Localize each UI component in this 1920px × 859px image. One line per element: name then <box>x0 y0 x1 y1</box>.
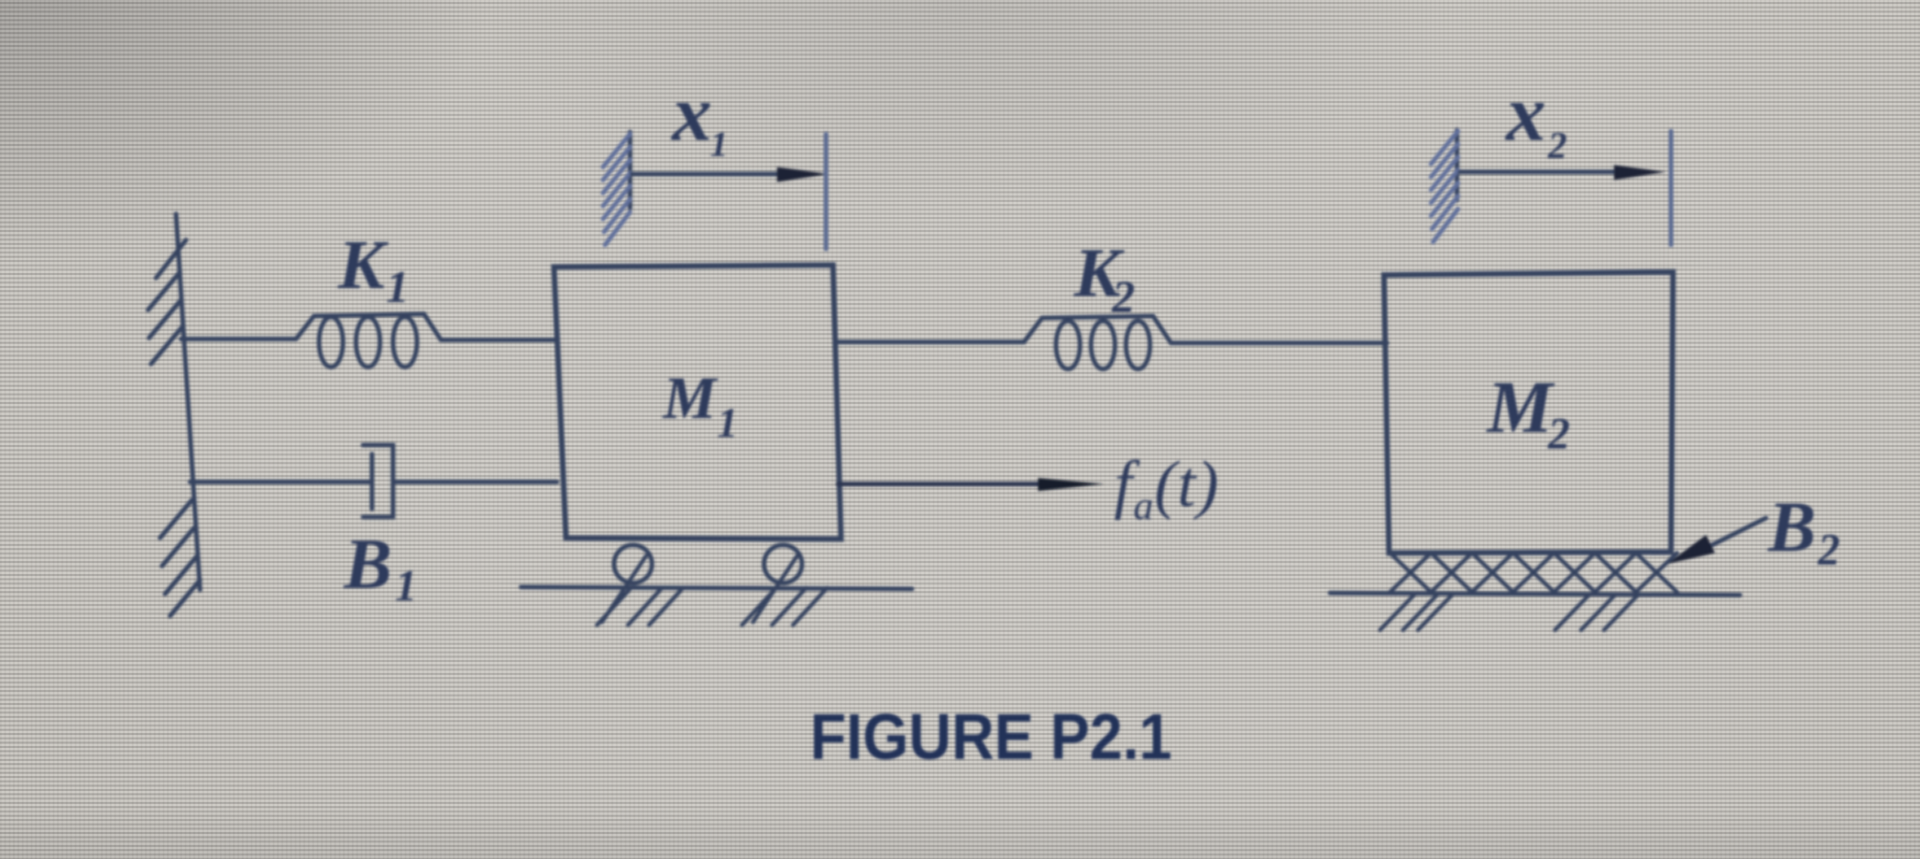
x1 arrowhead <box>777 167 829 182</box>
x1 arrow line <box>632 172 786 177</box>
rollers under M1: roller 1 <box>614 545 652 583</box>
svg-text:x: x <box>671 70 712 158</box>
wall hatch upper 4 <box>151 326 183 364</box>
damper B1 left rod <box>190 480 371 485</box>
svg-text:B: B <box>343 524 392 604</box>
svg-text:FIGURE P2.1: FIGURE P2.1 <box>810 700 1172 773</box>
x2 reference line <box>1455 130 1460 200</box>
svg-text:1: 1 <box>386 261 409 312</box>
svg-text:2: 2 <box>1547 409 1570 458</box>
spring K1 loop 3 <box>393 317 417 367</box>
svg-text:2: 2 <box>1817 525 1840 574</box>
svg-text:fa(t): fa(t) <box>1114 448 1220 528</box>
wall hatch lower 4 <box>170 580 200 616</box>
x2 arrowhead <box>1614 165 1666 180</box>
force fa(t) arrowhead <box>1038 478 1104 491</box>
wall hatch lower 2 <box>162 528 194 566</box>
x2 arrow line <box>1460 170 1620 175</box>
wall (left fixed support) <box>176 214 200 590</box>
wall hatch lower 3 <box>165 556 197 594</box>
svg-text:B: B <box>1767 487 1816 567</box>
svg-text:1: 1 <box>717 401 738 447</box>
spring K2 loop 2 <box>1091 321 1115 369</box>
wall hatch upper 1 <box>156 240 186 278</box>
ground hatch under M1 group 2 (incl roller tail) <box>742 556 827 625</box>
svg-text:M: M <box>662 365 719 431</box>
ground line under M2 <box>1330 593 1740 595</box>
damper B1 right rod <box>394 480 557 485</box>
ground hatch under M2 group 1 <box>1380 595 1452 630</box>
svg-text:2: 2 <box>1547 125 1567 167</box>
svg-text:x: x <box>1505 70 1546 158</box>
roller 2 <box>764 545 802 583</box>
mass M2 <box>1384 272 1673 553</box>
x2 measure tick <box>1669 131 1674 245</box>
spring K2 wire and envelope <box>836 316 1387 343</box>
ground hatch under M1 group 1 (incl roller tail) <box>597 556 683 625</box>
wall hatch upper 3 <box>149 300 181 338</box>
wall hatch upper 2 <box>148 272 180 310</box>
spring K1 loop 2 <box>356 317 380 367</box>
damper B1 piston <box>370 454 375 509</box>
spring K2 loop 3 <box>1126 321 1150 369</box>
damper B1 cylinder bracket <box>363 445 393 517</box>
spring K2 loop 1 <box>1056 321 1080 369</box>
svg-text:2: 2 <box>1111 271 1135 322</box>
B2 pointer line <box>1712 518 1766 545</box>
svg-text:1: 1 <box>710 124 728 164</box>
spring K1 loop 1 <box>319 317 343 367</box>
x1 reference line <box>628 132 633 208</box>
ground hatch under M2 group 2 <box>1555 595 1638 630</box>
ground line under M1 <box>521 587 912 589</box>
svg-text:M: M <box>1486 367 1555 449</box>
svg-text:1: 1 <box>395 561 417 610</box>
mass M1 <box>554 265 841 539</box>
force fa(t) line <box>838 482 1052 487</box>
friction B2 X-row under M2 <box>1390 553 1677 592</box>
B2 pointer arrowhead <box>1667 535 1715 564</box>
spring K1 wire and envelope <box>181 314 557 340</box>
x1 measure tick <box>824 134 829 249</box>
x2 reference hatch <box>1431 131 1458 242</box>
x1 reference hatch <box>603 134 630 245</box>
wall hatch lower 1 <box>160 500 192 538</box>
svg-text:K: K <box>337 227 389 304</box>
